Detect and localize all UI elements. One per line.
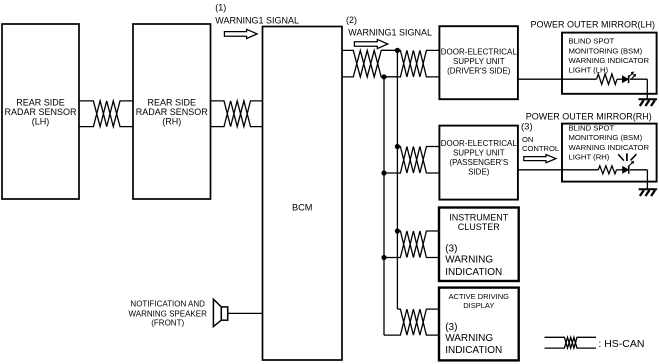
- svg-text:(FRONT): (FRONT): [151, 318, 184, 327]
- svg-text:SIDE): SIDE): [468, 168, 490, 177]
- svg-text:LIGHT (RH): LIGHT (RH): [569, 153, 610, 162]
- svg-text:(1): (1): [215, 3, 226, 13]
- svg-text:(LH): (LH): [32, 117, 50, 127]
- svg-text:CLUSTER: CLUSTER: [458, 222, 501, 232]
- svg-text:LIGHT (LH): LIGHT (LH): [569, 65, 609, 74]
- svg-text:MONITORING (BSM): MONITORING (BSM): [569, 46, 643, 55]
- svg-text:(RH): (RH): [162, 117, 181, 127]
- svg-text:WARNING: WARNING: [445, 333, 493, 344]
- svg-text:MONITORING (BSM): MONITORING (BSM): [569, 133, 643, 142]
- svg-text:SUPPLY UNIT: SUPPLY UNIT: [453, 149, 505, 158]
- svg-text:WARNING1 SIGNAL: WARNING1 SIGNAL: [215, 15, 299, 25]
- svg-text:SUPPLY UNIT: SUPPLY UNIT: [453, 57, 505, 66]
- svg-text:: HS-CAN: : HS-CAN: [598, 338, 644, 350]
- svg-text:CONTROL: CONTROL: [522, 144, 559, 153]
- svg-text:RADAR SENSOR: RADAR SENSOR: [4, 107, 77, 117]
- svg-text:DOOR-ELECTRICAL: DOOR-ELECTRICAL: [441, 139, 518, 148]
- svg-text:DISPLAY: DISPLAY: [463, 301, 494, 310]
- svg-text:(DRIVER'S SIDE): (DRIVER'S SIDE): [447, 67, 511, 76]
- svg-text:BLIND SPOT: BLIND SPOT: [569, 37, 615, 46]
- svg-text:(PASSENGER'S: (PASSENGER'S: [449, 158, 508, 167]
- svg-text:DOOR-ELECTRICAL: DOOR-ELECTRICAL: [441, 48, 518, 57]
- svg-text:WARNING INDICATOR: WARNING INDICATOR: [569, 143, 650, 152]
- svg-text:ACTIVE DRIVING: ACTIVE DRIVING: [449, 292, 510, 301]
- svg-text:NOTIFICATION AND: NOTIFICATION AND: [130, 300, 205, 309]
- svg-text:WARNING: WARNING: [445, 254, 493, 265]
- svg-text:(3): (3): [445, 322, 457, 333]
- svg-text:WARNING1 SIGNAL: WARNING1 SIGNAL: [348, 27, 432, 37]
- svg-text:WARNING SPEAKER: WARNING SPEAKER: [129, 309, 208, 318]
- svg-text:(3): (3): [521, 122, 533, 133]
- svg-text:(3): (3): [445, 244, 457, 255]
- svg-text:RADAR SENSOR: RADAR SENSOR: [136, 107, 209, 117]
- svg-text:REAR SIDE: REAR SIDE: [16, 97, 65, 107]
- svg-text:(2): (2): [346, 15, 357, 25]
- svg-text:BLIND SPOT: BLIND SPOT: [569, 123, 615, 132]
- svg-text:BCM: BCM: [292, 203, 312, 213]
- svg-text:INDICATION: INDICATION: [445, 267, 502, 278]
- svg-text:INDICATION: INDICATION: [445, 345, 502, 356]
- svg-text:WARNING INDICATOR: WARNING INDICATOR: [569, 56, 650, 65]
- svg-text:POWER OUTER MIRROR(RH): POWER OUTER MIRROR(RH): [526, 111, 652, 121]
- svg-text:REAR SIDE: REAR SIDE: [148, 97, 197, 107]
- svg-text:POWER OUTER MIRROR(LH): POWER OUTER MIRROR(LH): [531, 19, 656, 29]
- svg-text:ON: ON: [522, 135, 533, 144]
